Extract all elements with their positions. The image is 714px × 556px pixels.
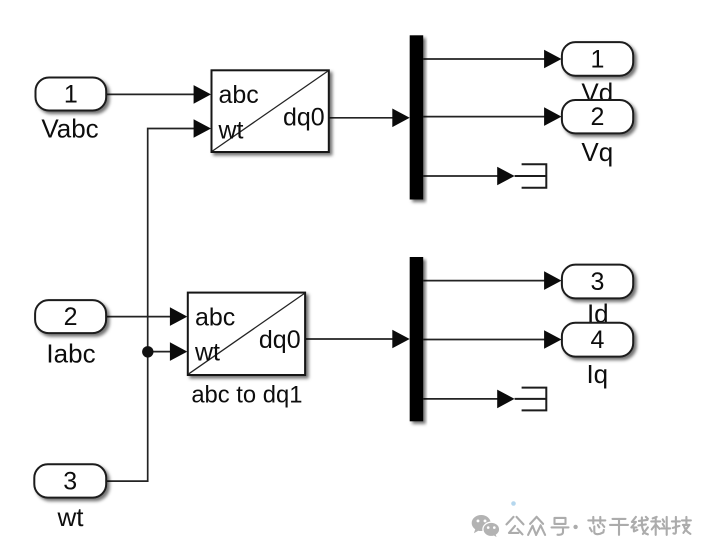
svg-text:3: 3	[591, 268, 605, 296]
arrowhead into T2	[497, 390, 514, 409]
wire junction to U2 wt	[148, 351, 172, 353]
wire In3 up to U1 wt	[106, 129, 196, 482]
separator middot	[573, 525, 577, 529]
wire D2 to Out3	[423, 280, 546, 282]
wire D2 to Out4	[423, 339, 546, 341]
glyph 号	[552, 518, 569, 535]
wire In2 to U2 abc	[106, 316, 172, 318]
svg-text:abc to dq1: abc to dq1	[191, 381, 302, 408]
U2 diagonal	[189, 293, 305, 373]
svg-text:2: 2	[591, 103, 605, 131]
glyph 干	[610, 519, 628, 535]
svg-text:wt: wt	[218, 116, 244, 144]
svg-text:abc: abc	[219, 81, 259, 109]
transform block U1 (abc to dq0)	[212, 70, 329, 152]
transform block U2 (abc to dq1)	[188, 293, 305, 375]
svg-text:Iq: Iq	[586, 359, 608, 389]
junction dot	[142, 346, 153, 357]
arrowhead into Out3	[544, 271, 561, 290]
svg-text:wt: wt	[57, 502, 85, 532]
glyph 芯	[588, 517, 605, 534]
svg-text:Vabc: Vabc	[41, 114, 98, 144]
watermark text 公众号 · 芯干线科技 (drawn as vector strokes)	[507, 517, 691, 535]
svg-text:dq0: dq0	[283, 104, 325, 132]
arrowhead into Out1	[544, 50, 561, 69]
outport 1 (Vd)	[562, 42, 633, 76]
terminator T1	[515, 164, 547, 188]
watermark blue dot	[511, 501, 516, 506]
U1 diagonal	[213, 71, 329, 151]
arrowhead into U1 abc	[194, 85, 211, 104]
wire U1 out to demux D1	[329, 117, 394, 119]
arrowhead into D2	[392, 330, 409, 349]
arrowhead into Out2	[544, 107, 561, 126]
outport 4 (Iq)	[562, 323, 633, 357]
wire D1 to Out1	[423, 58, 546, 60]
outport 2 (Vq)	[562, 100, 633, 133]
svg-text:1: 1	[64, 81, 78, 109]
svg-text:1: 1	[591, 45, 605, 73]
terminator T2	[515, 388, 547, 411]
glyph 技	[672, 517, 691, 534]
wire D1 to terminator T1	[423, 175, 499, 177]
outport 3 (Id)	[562, 265, 633, 299]
svg-text:dq0: dq0	[259, 326, 301, 354]
svg-text:wt: wt	[194, 339, 220, 367]
svg-text:2: 2	[64, 303, 78, 331]
inport 1 (Vabc)	[36, 78, 107, 111]
inport 2 (Iabc)	[35, 300, 106, 333]
demux D1	[410, 35, 424, 199]
arrowhead into U2 abc	[170, 307, 187, 326]
arrowhead into D1	[392, 109, 409, 128]
glyph 公	[507, 517, 524, 535]
wire D1 to Out2	[423, 116, 546, 118]
svg-text:Vq: Vq	[581, 137, 613, 167]
glyph 众	[528, 517, 545, 535]
arrowhead into Out4	[544, 330, 561, 349]
arrowhead into U2 wt	[170, 342, 187, 361]
wire D2 to terminator T2	[423, 398, 499, 400]
svg-text:4: 4	[591, 326, 605, 354]
glyph 线	[631, 517, 648, 535]
glyph 科	[651, 517, 670, 535]
svg-text:3: 3	[63, 468, 77, 496]
wire In1 to U1 abc	[106, 93, 196, 95]
watermark wechat logo	[472, 515, 500, 538]
inport 3 (wt)	[34, 464, 106, 497]
demux D2	[410, 257, 424, 421]
wire U2 out to demux D2	[305, 338, 394, 340]
arrowhead into T1	[497, 167, 514, 186]
svg-text:Iabc: Iabc	[46, 339, 95, 369]
arrowhead into U1 wt	[194, 119, 211, 138]
svg-text:abc: abc	[195, 303, 235, 331]
